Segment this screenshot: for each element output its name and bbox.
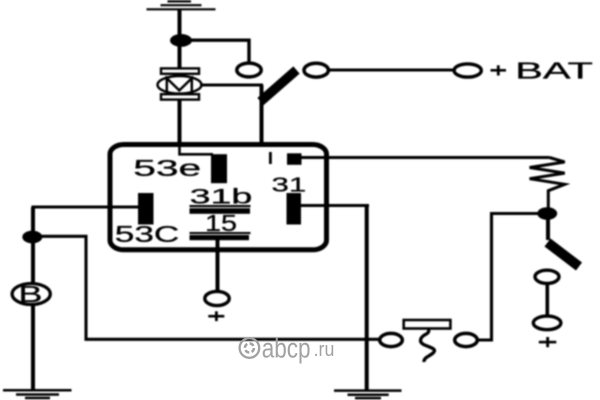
wire junction to flasher bbox=[33, 236, 380, 339]
node junction left bbox=[22, 231, 42, 244]
switch S1 lever bbox=[261, 70, 297, 102]
terminal bar 31b bbox=[190, 208, 251, 214]
relay K1 box bbox=[110, 145, 327, 250]
svg-text:abcp: abcp bbox=[262, 334, 311, 365]
flasher right terminal bbox=[455, 333, 478, 346]
watermark abcp.ru bbox=[240, 334, 335, 365]
node junction top bbox=[170, 34, 192, 47]
wire motor to switch pivot bbox=[200, 84, 263, 87]
wire contact to plus terminal bbox=[545, 283, 549, 316]
motor M1 label M bbox=[167, 78, 192, 91]
wire flasher to resistor junction bbox=[477, 214, 538, 341]
wire switch pivot down to relay bbox=[260, 85, 264, 146]
underline 15 bbox=[190, 232, 251, 234]
terminal bar 31 bbox=[287, 193, 302, 225]
ground left bbox=[3, 390, 72, 398]
flasher contact bar bbox=[404, 320, 451, 329]
wire junction to terminal circle bbox=[181, 40, 249, 64]
resistor R1 bbox=[530, 158, 565, 209]
motor M1 bottom brush bar bbox=[161, 94, 199, 99]
wire relay to resistor bbox=[301, 156, 549, 159]
label + under 15 terminal bbox=[208, 311, 224, 321]
ground top bbox=[147, 1, 216, 9]
pin tick I bbox=[269, 152, 272, 164]
label + BAT bbox=[491, 65, 507, 75]
switch S2 lever bbox=[548, 243, 580, 267]
switch S2 contact circle bbox=[535, 270, 559, 283]
label + right bbox=[539, 337, 557, 347]
terminal square top-right bbox=[287, 153, 302, 165]
terminal bar 15 bbox=[190, 235, 250, 240]
terminal circle A (open contact left) bbox=[237, 63, 261, 77]
flasher left terminal bbox=[380, 333, 403, 346]
terminal bar 53C bbox=[138, 193, 154, 225]
flasher thermal squiggle bbox=[421, 329, 435, 362]
terminal bar 53e bbox=[211, 154, 227, 183]
battery B symbol bbox=[12, 284, 50, 305]
ground center bbox=[334, 391, 402, 399]
wire 53C to left rail bbox=[32, 205, 140, 208]
terminal circle +BAT bbox=[454, 64, 481, 77]
terminal circle + right bbox=[533, 316, 561, 330]
svg-text:.ru: .ru bbox=[314, 339, 335, 361]
terminal circle B (switch contact) bbox=[304, 63, 328, 77]
left rail vertical wire bbox=[31, 207, 35, 391]
wire junction down to switch bbox=[546, 218, 550, 240]
wire 31 to ground line bbox=[301, 204, 369, 207]
terminal circle 15 output bbox=[205, 291, 229, 305]
wire into 53e terminal bbox=[180, 146, 214, 154]
wire 31 ground drop bbox=[365, 206, 369, 392]
node junction resistor bbox=[537, 207, 557, 220]
motor M1 top brush bar bbox=[161, 68, 199, 73]
wire 15 down to plus terminal bbox=[216, 239, 220, 292]
underline 31b bbox=[190, 205, 251, 207]
wire main vertical from ground to relay bbox=[178, 9, 182, 146]
motor M1 body bbox=[158, 76, 202, 94]
wire switch contact to battery terminal bbox=[328, 68, 454, 71]
